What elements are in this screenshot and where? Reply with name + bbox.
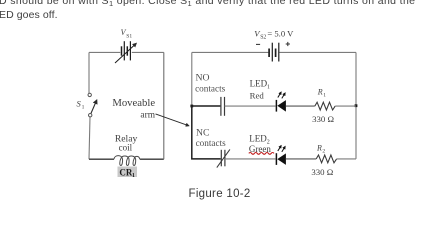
wire: switch to bottom-left corner [89,117,90,159]
label R2 [316,144,325,155]
svg-text:ED goes off.: ED goes off. [0,9,58,21]
wire: LED2 to R2 [286,158,316,160]
wire: right loop right side [355,52,357,158]
battery VS1 (variable source) [115,41,136,63]
label NC contacts [196,128,227,148]
resistor R2 [316,155,336,163]
red spellcheck squiggle under Green [249,153,274,155]
wire: R1 to right rail node [335,105,356,107]
svg-text:R: R [316,144,322,153]
wire: right loop top [192,51,356,53]
node: relay arm common junction [190,105,193,108]
svg-text:S2: S2 [260,35,266,41]
svg-text:coil: coil [119,142,133,152]
wire: R2 to bottom-right corner [337,158,356,160]
label CR1 (highlighted) [118,167,138,180]
svg-text:1: 1 [132,173,135,179]
label NO contacts [195,73,226,94]
wire: relay arm to NO contact (bold moveable arm) [192,105,221,107]
svg-text:D should be on with S1 open. C: D should be on with S1 open. Close S1 an… [0,0,415,8]
svg-text:1: 1 [323,92,326,98]
LED2 green (diode with cathode bar, light arrows) [276,146,286,165]
wire: left loop right [163,52,165,159]
battery VS2 [269,43,279,62]
svg-text:= 5.0 V: = 5.0 V [267,29,294,39]
leader arrow from arm label to relay moveable arm [156,114,189,126]
svg-text:LED: LED [250,79,268,89]
wire: NO contact to LED1 [225,105,276,107]
svg-text:330 Ω: 330 Ω [312,114,334,124]
LED1 red (diode with cathode bar, light arrows) [276,93,286,112]
relay coil CR1 (inductor) [114,156,140,166]
label LED2 Green (with spellcheck squiggle) [249,134,271,154]
NO contacts symbol [221,97,225,116]
label VS2 = 5.0 V [254,29,294,41]
label R1 [317,88,326,99]
wire: LED1 to R1 [286,105,315,107]
NC contacts symbol [217,149,230,167]
svg-text:Red: Red [250,90,265,100]
svg-text:LED: LED [249,134,267,144]
label VS1 [121,28,133,40]
label S1 [77,99,85,111]
wire: left loop bottom [89,158,164,160]
label LED1 Red [250,79,270,101]
svg-text:2: 2 [322,148,325,154]
wire: left loop left (corner to switch) [88,52,90,93]
node: NO branch / right rail junction [355,104,358,107]
svg-text:1: 1 [267,84,270,90]
svg-text:contacts: contacts [196,138,227,148]
wire: relay arm to NC contact (bold moveable arm) [192,106,221,159]
wire: right loop left upper (corner to node) [191,52,193,106]
label Relay coil [115,133,138,152]
svg-text:330 Ω: 330 Ω [311,167,333,177]
svg-text:S1: S1 [126,34,132,40]
svg-text:1: 1 [82,105,85,111]
svg-text:R: R [317,88,323,97]
svg-text:Figure 10-2: Figure 10-2 [189,188,251,200]
svg-text:Moveable: Moveable [112,97,155,109]
svg-text:arm: arm [140,110,155,120]
svg-text:contacts: contacts [195,84,226,94]
svg-text:NO: NO [196,73,210,84]
label Moveable arm [112,97,155,120]
resistor R1 [315,102,335,110]
polarity marks - and + [256,42,290,46]
wire: left loop top [89,51,164,53]
switch S1 [88,93,97,117]
wire: NC contact to LED2 [225,158,276,160]
svg-text:CR: CR [119,167,132,177]
